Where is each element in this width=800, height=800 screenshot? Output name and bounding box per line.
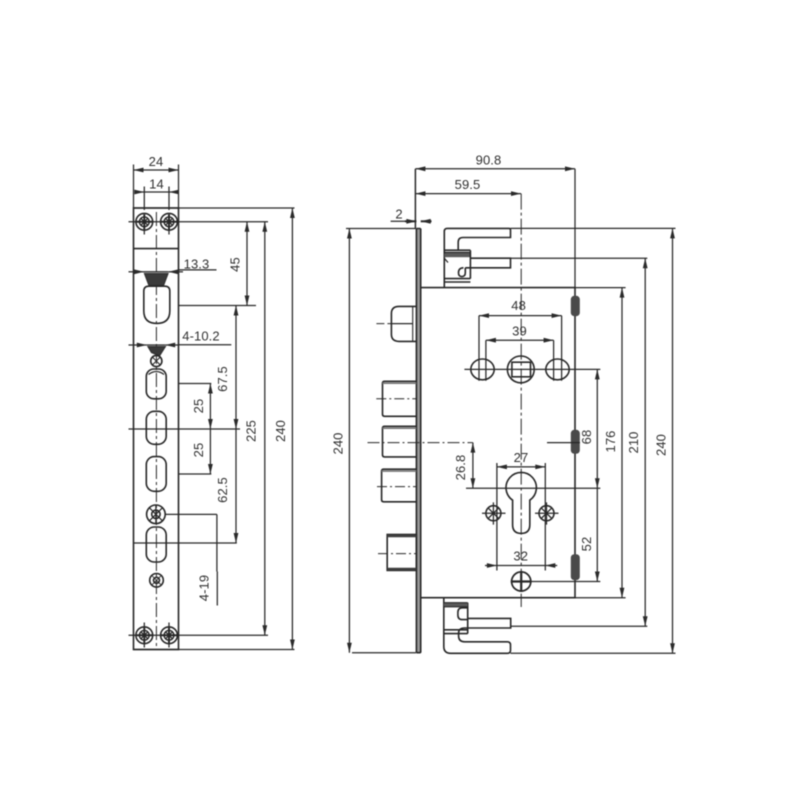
extension verticals for 48 [479,316,562,381]
small square bolt with cross [149,355,165,374]
vertical centerline through cylinder axis [520,194,522,607]
svg-text:2: 2 [395,207,402,222]
euro cylinder profile [506,472,536,533]
dimension 14 [135,191,179,193]
dimension 59.5 [415,193,521,195]
faceplate centerline [155,212,157,648]
svg-text:210: 210 [626,432,641,454]
extension lines for dim 14 [144,187,169,211]
svg-text:48: 48 [511,298,526,313]
bottom screw right [161,623,178,648]
svg-text:67.5: 67.5 [215,366,230,392]
extension line case bottom (left) [352,652,416,654]
dimension 52 vertical [596,488,598,581]
back edge slot bottom (dark) [571,554,580,580]
svg-text:62.5: 62.5 [215,477,230,503]
dimension 4-10.2 line with arrows [129,344,179,346]
extension lines for dim 24 [134,165,179,209]
dimension 2 arrows [405,220,432,222]
leader line for 4-19 [216,514,218,571]
hole left [471,359,494,380]
svg-text:13.3: 13.3 [184,257,210,272]
dimension 32 (outside arrows) [485,565,557,567]
dimension 240 vertical (right view left side) [348,229,350,653]
extension line slotE center [134,542,237,544]
square bolt 2 [383,426,417,457]
extension line case top (left) [346,228,416,230]
bottom screw left [136,623,153,648]
back edge slot top (dark) [571,296,580,316]
fixing screw right [535,502,559,524]
slot D [146,457,166,492]
bolt 3 centerline [377,486,416,488]
slot C [146,411,166,444]
svg-text:59.5: 59.5 [455,177,481,192]
back edge slot middle (dark) [571,430,580,454]
svg-text:240: 240 [331,433,346,455]
slot B [146,369,166,399]
svg-text:24: 24 [149,154,164,169]
svg-text:32: 32 [513,549,528,564]
svg-text:225: 225 [244,420,259,442]
cylinder center horizontal line [466,487,600,489]
dimension 225 vertical [264,222,266,636]
dimension 90.8 [415,168,575,170]
extension line prong to 210 dim [511,257,648,259]
dimension 176 vertical [621,288,623,598]
svg-text:39: 39 [512,324,527,339]
deadbolt side view (thick edges) [387,535,416,571]
follower centerline (main) [368,442,473,444]
slot E [146,527,166,562]
plate section divider line [134,248,179,250]
hole right [546,359,569,380]
top screw right [161,213,178,234]
lock case outline [421,288,575,598]
extension line plate bottom to 240 dim [134,649,295,651]
extension verticals for 39 [486,340,554,381]
dimension 25+25 vertical [209,384,211,475]
dimension 27 [497,466,545,468]
faceplate edge view (grey band) [416,229,420,653]
dimension 67.5 + 62.5 vertical [235,306,237,544]
follower hole middle [507,356,534,383]
faceplate outline (front view) [134,208,179,650]
svg-text:14: 14 [149,177,164,192]
deadbolt centerline [378,553,416,555]
dimension 26.8 vertical [472,443,474,489]
svg-text:52: 52 [579,537,594,552]
extension line bottom prong to 210 dim [511,625,648,627]
extension line mid to 67.5 dim [129,428,241,430]
fixing screw left [482,502,506,524]
svg-text:240: 240 [654,434,669,456]
extension line slotB center [179,383,212,385]
latch opening slot [144,286,170,323]
snib wedge (dark) [148,347,165,356]
extension line case top to 176 dim [575,287,626,289]
dimension 45 vertical [246,222,248,306]
extension line screw boss [166,513,217,515]
latch centerline extension to 45 dim [179,305,257,307]
svg-text:68: 68 [579,430,594,445]
svg-text:4-19: 4-19 [197,575,212,601]
extension line slotD center [179,473,212,475]
dimension 13.3 line with arrows [129,271,184,273]
extension line case bottom to 176 dim [575,597,626,599]
svg-text:25: 25 [191,443,206,458]
extension line top screws to 225 dim [129,221,269,223]
svg-text:27: 27 [514,450,529,465]
svg-text:25: 25 [191,399,206,414]
svg-text:4-10.2: 4-10.2 [182,329,219,344]
dimension 240 vertical (right view right side) [672,228,674,653]
latch centerline [376,323,391,325]
hatched screw boss [147,505,166,525]
dimension 24 [134,169,179,171]
hole row centerline [464,368,600,370]
svg-text:176: 176 [603,431,618,453]
dimension 240 vertical (left view) [291,208,293,650]
dimension 68 vertical [596,369,598,488]
svg-text:90.8: 90.8 [476,153,502,168]
extension line hook bottom to 240 dim [511,652,676,654]
dimension 39 [486,339,554,341]
extension line plate top to 240 dim [134,207,295,209]
extension line faceplate front top [414,169,416,229]
latch bolt head side view [391,306,416,341]
svg-text:240: 240 [273,420,288,442]
small lower circle [150,574,164,588]
svg-text:26.8: 26.8 [453,455,468,481]
bottom hook bolt [444,598,511,653]
svg-text:45: 45 [228,257,243,272]
extension verticals for 27/32 [497,463,545,571]
dimension 210 vertical [644,258,646,626]
follower centerline at back slot [547,442,580,444]
square bolt 1 [383,381,417,416]
top screw left [136,213,153,234]
latch bolt head (dark) [145,274,169,286]
top hook bolt [444,228,510,287]
extension line hook top to 240 dim [511,227,676,229]
cross screw extension line [532,581,601,583]
square bolt 3 [382,469,417,502]
bolt 1 centerline [376,398,416,400]
extension line bottom screws to 225 dim [129,634,269,636]
extension vertical case back top [574,169,576,288]
dimension 48 [479,315,562,317]
cross screw [511,571,532,592]
